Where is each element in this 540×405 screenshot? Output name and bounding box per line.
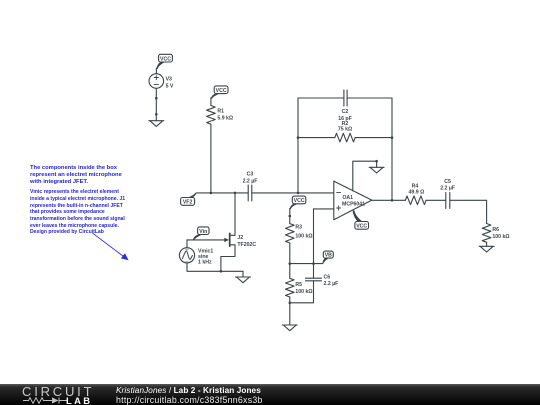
- wire rail to ground: [242, 271, 244, 277]
- wire C6 bottom return: [290, 281, 314, 303]
- wire R1 to node VF2: [210, 124, 212, 193]
- svg-text:VCC: VCC: [216, 88, 227, 94]
- wire Vmic1 top to gate: [186, 240, 188, 248]
- junction dot (R3/R5): [289, 262, 292, 265]
- junction dot (R1 / VF2): [210, 192, 213, 195]
- flag VCC (above V3): [156, 54, 172, 69]
- wire R3 to VB node: [289, 243, 291, 278]
- svg-text:R3: R3: [295, 225, 302, 231]
- svg-text:C6: C6: [324, 275, 331, 281]
- junction dot (R2 right): [391, 136, 394, 139]
- logo CIRCUIT: [22, 385, 94, 398]
- wire feedback left vertical: [297, 98, 299, 193]
- junction dot: [155, 97, 158, 100]
- svg-text:VCC: VCC: [294, 198, 305, 204]
- svg-text:5.9 kΩ: 5.9 kΩ: [217, 115, 233, 121]
- capacitor C6: [306, 278, 322, 281]
- junction dot (R2 left): [297, 136, 300, 139]
- wire VCC to R1: [210, 98, 212, 106]
- junction dot (C6 return): [289, 302, 292, 305]
- svg-text:R4: R4: [412, 183, 419, 189]
- junction dot (V+ / gnd): [375, 160, 378, 163]
- wire feedback top left: [298, 97, 344, 99]
- wire opamp V+ pin: [353, 161, 377, 191]
- flag VB: [322, 251, 333, 264]
- wire J2 source route: [221, 245, 235, 271]
- gate arrow: [224, 238, 229, 242]
- wire J2 gate: [187, 239, 225, 241]
- logo schematic squiggle: [0, 384, 70, 405]
- transistor J2 channel bar: [229, 233, 231, 246]
- resistor R3: [286, 224, 295, 243]
- svg-text:5 V: 5 V: [166, 83, 174, 89]
- wire R4 to C5: [426, 199, 446, 201]
- junction dot: [155, 113, 158, 116]
- svg-text:2.2 µF: 2.2 µF: [243, 178, 258, 184]
- flag VCC (above R1): [211, 86, 228, 99]
- wire J2 drain vertical: [230, 193, 235, 235]
- svg-text:J2: J2: [237, 235, 243, 241]
- logo LAB: [66, 396, 92, 405]
- ground (op-amp supply): [369, 167, 384, 173]
- svg-text:100 kΩ: 100 kΩ: [492, 234, 509, 240]
- wire R2 right: [355, 137, 392, 139]
- voltage source V3: [149, 74, 164, 89]
- svg-text:100 kΩ: 100 kΩ: [295, 233, 312, 239]
- svg-text:75 kΩ: 75 kΩ: [338, 126, 352, 132]
- resistor R1: [207, 106, 216, 125]
- svg-text:C3: C3: [247, 172, 254, 178]
- wire R2 left: [298, 137, 335, 139]
- svg-text:Vin: Vin: [199, 229, 207, 235]
- flag Vin: [193, 227, 209, 240]
- wire VCC to R3: [289, 208, 291, 223]
- annotation arrow: [93, 233, 129, 260]
- resistor R6: [482, 224, 491, 243]
- wire C3 to op-amp inverting input: [252, 192, 334, 194]
- flag VCC (above R3): [290, 196, 306, 209]
- capacitor C2: [344, 90, 347, 106]
- source Vmic1: [179, 248, 194, 263]
- annotation paragraph 2: [30, 189, 125, 236]
- resistor R2: [335, 133, 355, 142]
- wire feedback top right: [347, 97, 392, 99]
- ground (divider): [282, 325, 297, 331]
- wire opamp + input horizontal: [314, 208, 334, 210]
- svg-text:VB: VB: [325, 253, 332, 259]
- wire op-amp output: [372, 199, 406, 201]
- svg-text:1 kHz: 1 kHz: [198, 259, 212, 265]
- svg-text:R5: R5: [295, 282, 302, 288]
- svg-text:VCC: VCC: [356, 224, 367, 230]
- wire VB node horizontal: [290, 263, 323, 265]
- ground (below V3): [149, 121, 164, 127]
- wire node VF2: [196, 192, 248, 194]
- junction dot: [289, 215, 292, 218]
- svg-text:VCC: VCC: [160, 56, 171, 62]
- svg-text:C5: C5: [444, 179, 451, 185]
- svg-text:TF202C: TF202C: [237, 242, 256, 248]
- capacitor C3: [248, 185, 252, 201]
- annotation paragraph 1: [30, 165, 122, 186]
- junction dot (feedback tap): [297, 192, 300, 195]
- footer bar: [0, 384, 540, 405]
- resistor R5: [286, 278, 295, 297]
- flag VCC (op-amp V-): [353, 210, 369, 229]
- svg-text:2.2 µF: 2.2 µF: [324, 281, 339, 287]
- junction dot (J2 drain branch): [234, 192, 237, 195]
- svg-text:V3: V3: [166, 77, 172, 83]
- svg-text:MCP6041: MCP6041: [342, 202, 365, 208]
- svg-text:OA1: OA1: [342, 195, 353, 201]
- wire R5 to ground rail: [289, 297, 291, 325]
- svg-text:2.2 µF: 2.2 µF: [440, 186, 455, 192]
- svg-text:R6: R6: [492, 227, 499, 233]
- wire opamp + input vertical: [313, 209, 315, 278]
- footer url: [116, 396, 263, 405]
- junction dot (source to rail): [220, 270, 223, 273]
- wire feedback right vertical: [391, 98, 393, 200]
- svg-text:49.9 Ω: 49.9 Ω: [409, 190, 425, 196]
- junction dot (opamp + branch): [312, 262, 315, 265]
- wire C5 to R6: [450, 200, 487, 223]
- svg-text:C2: C2: [342, 109, 349, 115]
- junction dot (output/feedback): [391, 199, 394, 202]
- svg-text:R1: R1: [217, 108, 224, 114]
- svg-text:VF2: VF2: [183, 200, 193, 206]
- flag VF2: [181, 193, 197, 205]
- footer title: [116, 387, 261, 395]
- ground (output): [479, 246, 494, 252]
- wire stub to ground: [376, 161, 378, 167]
- svg-text:100 kΩ: 100 kΩ: [295, 289, 312, 295]
- wire flag to V3: [155, 68, 157, 74]
- ground (microphone): [236, 277, 251, 283]
- capacitor C5: [446, 193, 450, 209]
- resistor R4: [405, 196, 426, 205]
- wire Vmic1 bottom rail: [187, 263, 243, 271]
- wire V3 to ground: [155, 88, 157, 120]
- op-amp OA1: [334, 181, 372, 220]
- wire R6 to ground: [486, 242, 488, 246]
